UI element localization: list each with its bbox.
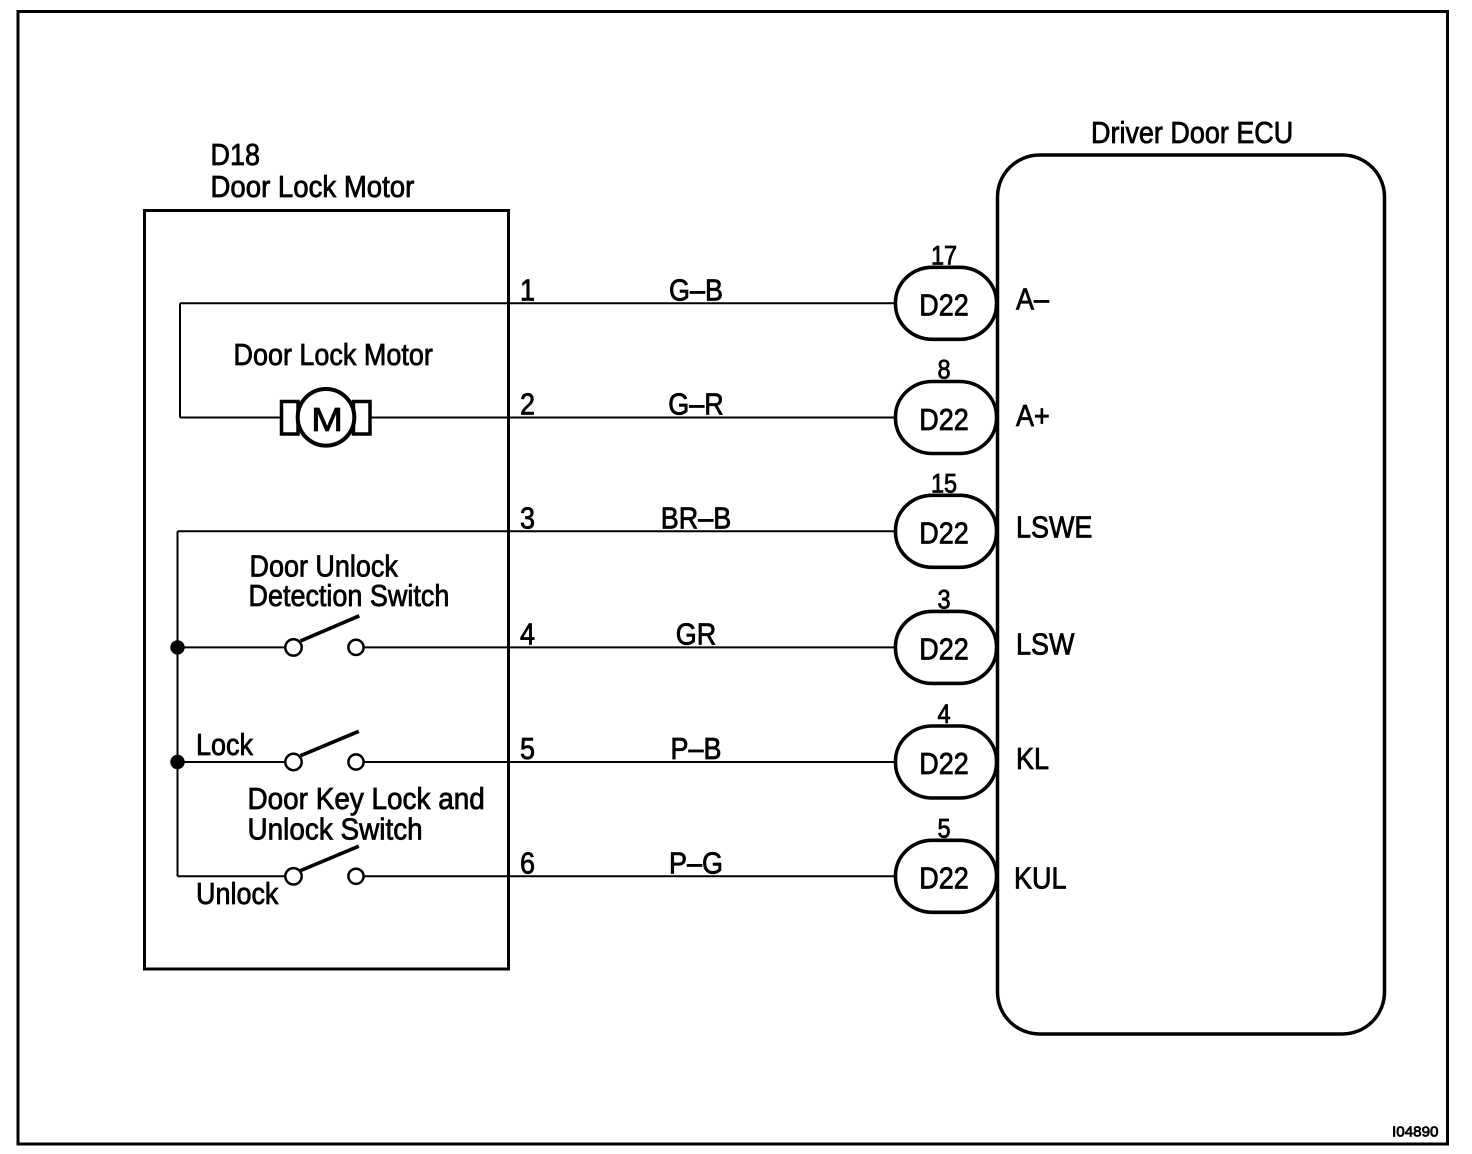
wire pin1 G-B row [180,302,897,304]
ECU U1 Driver Door ECU body [998,155,1385,1034]
wire pin6 left segment [178,875,286,877]
svg-text:Door Lock Motor: Door Lock Motor [234,338,434,372]
connector D22 pin17 [896,267,997,339]
component box D18 Door Lock Motor [145,211,509,970]
wire switch bus vertical [177,531,179,876]
svg-text:4: 4 [937,700,950,730]
connector D22 pin5 [896,840,997,912]
svg-text:I04890: I04890 [1392,1124,1438,1141]
svg-text:2: 2 [520,388,535,422]
svg-text:5: 5 [520,732,535,766]
svg-text:LSWE: LSWE [1016,511,1092,545]
svg-text:Unlock Switch: Unlock Switch [248,812,423,847]
connector D22 pin8 [896,382,997,454]
svg-text:3: 3 [520,502,535,536]
wire motor loop vertical [179,303,181,417]
svg-text:Door Lock Motor: Door Lock Motor [211,170,415,205]
svg-text:D22: D22 [919,517,968,551]
svg-text:G–R: G–R [668,388,723,422]
connector D22 pin3 [896,611,997,683]
svg-text:D22: D22 [919,289,968,323]
svg-text:3: 3 [937,585,950,615]
svg-text:Driver Door ECU: Driver Door ECU [1091,116,1293,150]
svg-text:G–B: G–B [669,274,723,308]
svg-text:LSW: LSW [1016,628,1075,662]
svg-text:D22: D22 [919,747,968,781]
svg-text:6: 6 [520,847,535,881]
svg-text:5: 5 [937,814,950,844]
connector D22 pin15 [896,495,997,567]
wire pin4 left segment [178,646,286,648]
svg-text:15: 15 [931,469,957,499]
svg-text:Door Key Lock and: Door Key Lock and [248,782,485,817]
node junction row4 [170,640,184,654]
svg-text:BR–B: BR–B [661,502,731,536]
svg-text:P–G: P–G [669,847,723,881]
wire pin6 right segment [364,875,897,877]
svg-text:Unlock: Unlock [196,877,279,911]
svg-text:D22: D22 [919,862,968,896]
wire pin5 left segment [178,761,286,763]
svg-text:Lock: Lock [196,728,253,762]
svg-text:D18: D18 [211,138,260,172]
svg-text:17: 17 [931,241,957,271]
switch S1 Door Unlock Detection Switch [285,616,363,656]
switch S3 Door Key Unlock contact [285,846,363,884]
node junction row5 [170,755,184,769]
svg-text:KL: KL [1016,742,1049,776]
switch S2 Door Key Lock contact [285,731,363,770]
wire pin5 right segment [364,761,897,763]
svg-text:GR: GR [676,618,716,652]
connector D22 pin4 [896,726,997,798]
svg-text:1: 1 [520,274,535,308]
svg-text:A+: A+ [1016,399,1050,433]
svg-text:8: 8 [937,355,950,385]
svg-text:Detection Switch: Detection Switch [249,579,450,613]
svg-text:4: 4 [520,618,535,652]
svg-text:P–B: P–B [671,732,722,766]
svg-text:KUL: KUL [1014,862,1066,896]
svg-text:A–: A– [1016,283,1050,317]
wire pin3 BR-B row [178,530,898,532]
motor M1 Door Lock Motor [234,338,434,445]
svg-text:M: M [311,401,343,438]
wire pin4 right segment [364,646,897,648]
wire pin2 G-R row [180,417,897,419]
svg-text:D22: D22 [919,403,968,437]
svg-text:D22: D22 [919,633,968,667]
